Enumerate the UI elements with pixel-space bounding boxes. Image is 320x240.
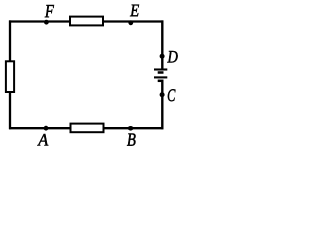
node F dot [44,20,49,25]
wire top (F-E segment of loop) [9,20,163,22]
resistor R1 (top, between F and E) [70,17,103,26]
wire right upper (E to battery) [161,20,163,68]
resistor R3 (bottom, between A and B) [71,124,104,133]
label F [45,5,54,17]
label D [167,51,177,62]
node E dot [128,20,133,25]
resistor R2 (left side) [6,61,14,92]
battery cell plate short 1 [158,71,164,74]
battery cell plate short 2 [158,80,164,83]
node B dot [128,126,134,131]
label B [127,134,136,146]
node D dot [160,54,165,59]
label C [168,89,176,101]
wire right lower (battery to B corner) [161,82,163,130]
wire bottom (A-B segment of loop) [9,127,163,129]
node A dot [44,126,49,131]
battery cell plate long 2 [154,76,167,78]
label E [130,5,139,17]
wire left [9,20,11,129]
label A [37,134,48,146]
node C dot [160,92,165,97]
battery cell plate long 1 [154,68,167,70]
